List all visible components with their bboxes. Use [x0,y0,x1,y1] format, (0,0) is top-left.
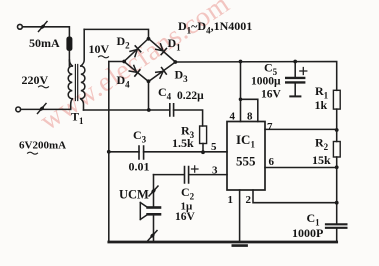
svg-text:16V: 16V [175,211,196,223]
wire bridge bottom vertex down [148,82,150,111]
left rail [108,62,110,243]
node R3 / pin5 [201,150,205,154]
node bridge right [173,60,177,64]
resistor R3 [200,126,207,144]
diode D1 [156,44,167,55]
svg-text:R2: R2 [315,136,329,153]
ground [233,244,247,247]
wire pin 3 with C2 [154,174,228,176]
wire right rail mid [336,167,338,223]
bridge rectifier diamond [124,39,176,82]
plus sign C5 [300,68,307,75]
svg-text:1: 1 [228,194,234,206]
clip symbol bottom input [38,104,47,114]
wire C4 to R3 [174,110,203,126]
clip symbol UCM bottom [148,231,157,241]
wire secondary top rail to bridge [84,29,148,38]
wire pin 2 [253,190,337,203]
svg-text:7: 7 [267,121,273,133]
transformer T1 secondary winding [81,66,85,99]
wire secondary bottom to bridge bottom node [84,109,170,111]
svg-text:D3: D3 [175,68,189,85]
terminal bottom-left [16,107,21,112]
svg-text:220V: 220V [22,73,49,87]
svg-text:1.5k: 1.5k [172,136,194,150]
wire top input [22,27,69,36]
bottom rail [109,241,337,244]
svg-text:C4: C4 [158,85,172,102]
svg-text:1000μ: 1000μ [251,76,281,88]
svg-text:15k: 15k [312,153,331,167]
svg-text:6V200mA: 6V200mA [19,140,66,152]
clip symbol top input [39,22,48,32]
svg-text:555: 555 [236,154,256,169]
capacitor C2 [185,167,189,184]
svg-text:5: 5 [211,141,217,153]
top positive rail [175,62,336,91]
svg-text:4: 4 [230,111,236,123]
wire pin 7 [265,128,337,130]
svg-text:10V: 10V [89,42,110,56]
capacitor C4 [170,104,174,116]
node bridge bottom junction [147,108,151,112]
svg-text:16V: 16V [261,89,282,101]
svg-text:0.22μ: 0.22μ [177,90,204,102]
diode D4 [129,65,140,76]
svg-text:1000P: 1000P [292,226,323,240]
transformer T1 primary winding [68,66,72,99]
IC1 555 box [227,122,265,191]
capacitor C1 [326,223,346,225]
node left rail / C3 wire [107,150,111,154]
resistor R2 [336,130,338,142]
svg-text:2: 2 [246,194,252,206]
node bridge top [147,37,151,41]
svg-text:C3: C3 [133,128,147,145]
svg-text:3: 3 [212,165,218,177]
wire pin 1 to ground [239,190,241,242]
diode D3 [155,68,166,79]
transducer UCM element plates [148,206,160,209]
svg-text:C2: C2 [181,185,195,202]
svg-text:6: 6 [269,156,275,168]
UCM branch wire [153,175,155,242]
node bridge bottom [147,79,151,83]
svg-text:1k: 1k [315,98,328,112]
node bridge left [122,60,126,64]
svg-text:50mA: 50mA [29,36,60,50]
capacitor C3 [139,146,144,159]
wire bridge left vertex to left rail [109,61,124,63]
transformer core [75,65,77,101]
plus sign C2 [192,166,199,172]
capacitor C5 [294,62,296,77]
wire bottom input [21,108,71,110]
supply branch to pins 4 8 [241,62,258,122]
fuse 50mA [66,37,72,52]
transducer UCM cone [140,203,147,220]
svg-text:UCM: UCM [119,188,149,202]
clip symbol UCM top [149,186,158,196]
wire pin 6 [265,167,337,169]
svg-text:D2: D2 [117,34,131,51]
diode D2 [130,46,141,57]
svg-text:0.01: 0.01 [129,160,150,174]
wire pin 5 with C3 [109,151,227,153]
terminal top-left [18,24,23,29]
svg-text:8: 8 [247,111,253,123]
resistor R1 [333,90,340,109]
svg-text:IC1: IC1 [236,132,255,150]
